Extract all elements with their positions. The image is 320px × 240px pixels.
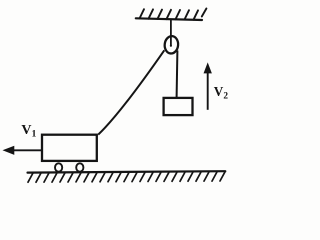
arrow V1 (leftward) [4,146,42,154]
pulley U (circle) [164,35,179,54]
pulley axle [170,45,172,47]
ground hatching [28,172,225,182]
cart (trolley) body [42,135,97,161]
hanging block M2 [164,98,193,115]
arrow V2 (upward) [204,64,211,110]
cart wheel (right) [76,163,83,171]
svg-text:V2: V2 [214,84,229,102]
rope (vertical from pulley to block) [176,51,179,98]
cart wheel (left) [55,163,62,171]
ceiling line [136,18,202,20]
ceiling hatching [140,9,207,20]
ground line [28,171,226,172]
svg-text:V1: V1 [21,123,36,140]
rope (diagonal from cart to pulley) [98,50,164,134]
pulley support rod [170,19,172,45]
